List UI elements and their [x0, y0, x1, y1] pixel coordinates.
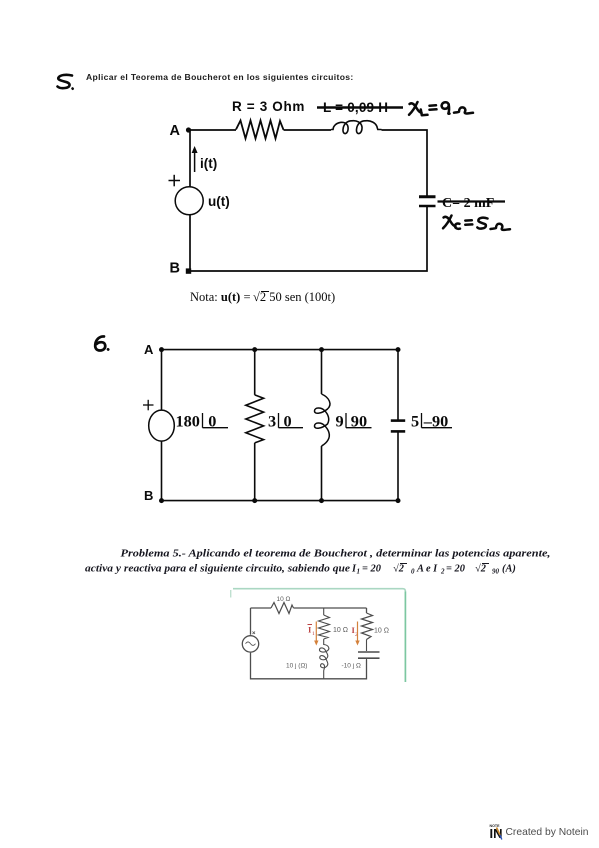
wire source up to node A [189, 130, 191, 187]
strikethrough over C label [438, 200, 506, 202]
svg-text:B: B [170, 261, 180, 277]
top wire (circuit 6) [162, 349, 399, 351]
svg-text:A: A [144, 342, 154, 357]
scanned circuit: middle branch wire [323, 608, 325, 679]
handwritten problem number 5 [58, 75, 73, 89]
svg-text:Problema 5.- Aplicando el teor: Problema 5.- Aplicando el teorema de Bou… [121, 549, 551, 560]
resistor R (circuit 5) [236, 121, 284, 139]
svg-text:A: A [170, 123, 181, 139]
svg-text:1: 1 [312, 631, 315, 637]
green image border left stub [230, 590, 232, 598]
scanned circuit: I1 bar and sub [308, 624, 313, 626]
problema 5 line 2 formulas [351, 563, 516, 576]
capacitor C (circuit 5) [419, 197, 436, 206]
wire inductor to right corner [382, 130, 428, 196]
current arrow i(t) [192, 146, 198, 172]
inductor branch wires (circuit 6) [321, 350, 323, 501]
capacitor branch wires (circuit 6) [397, 350, 399, 501]
svg-text:90: 90 [492, 568, 500, 576]
wire resistor to inductor [284, 129, 332, 131]
svg-text:9: 9 [336, 412, 344, 431]
scanned circuit: middle inductor coil [319, 645, 328, 671]
green image border top [233, 589, 405, 592]
label 5 angle -90 [411, 412, 448, 431]
node A label (circuit 5) [170, 123, 181, 139]
overline of radical [261, 291, 269, 293]
svg-text:√2 50 sen (100t): √2 50 sen (100t) [253, 290, 335, 304]
scanned circuit: source circle [242, 636, 258, 652]
svg-text:= 20: = 20 [362, 564, 382, 575]
svg-text:3: 3 [268, 412, 276, 431]
voltage source ellipse (circuit 6) [149, 410, 175, 441]
svg-text:180: 180 [176, 412, 200, 431]
node A junction dot [186, 127, 191, 132]
scanned circuit: top resistor 10 ohm [271, 603, 294, 614]
svg-text:R = 3 Ohm: R = 3 Ohm [232, 99, 305, 114]
svg-text:10 j (Ω): 10 j (Ω) [286, 663, 307, 670]
green image border right [404, 592, 406, 683]
scanned circuit: middle resistor [319, 615, 330, 639]
svg-text:B: B [144, 488, 153, 503]
junction dots bottom [159, 498, 401, 503]
junction dots top [159, 347, 401, 352]
plus sign (circuit 6) [143, 400, 154, 411]
angle symbol for 3 [279, 413, 304, 428]
scanned circuit: arrow I1 orange [314, 622, 318, 646]
label 9 angle 90 [336, 412, 368, 431]
scanned circuit: source sine mark [246, 642, 256, 646]
strikethrough over L label [317, 106, 403, 108]
nota line: u(t) = sqrt2 50 sen (100t) [190, 290, 335, 304]
source branch wires (circuit 6) [161, 350, 163, 501]
svg-text:(A): (A) [502, 564, 516, 575]
svg-text:u(t): u(t) [208, 194, 230, 209]
svg-text:10 Ω: 10 Ω [333, 627, 348, 634]
svg-text:10 Ω: 10 Ω [374, 628, 389, 635]
svg-text:2: 2 [440, 568, 445, 576]
svg-text:i(t): i(t) [200, 156, 217, 171]
handwritten problem number 6 [95, 336, 108, 350]
svg-text:Nota: u(t) =: Nota: u(t) = [190, 290, 251, 304]
bottom wire (circuit 6) [162, 500, 399, 502]
scanned circuit: right resistor [362, 613, 373, 640]
svg-text:C= 2 mF: C= 2 mF [442, 196, 494, 211]
header instruction text [86, 72, 354, 82]
angle symbol for 9 [346, 413, 372, 428]
svg-text:Created by Notein: Created by Notein [506, 827, 589, 838]
scanned circuit: source plus dot [253, 632, 256, 635]
label 180 angle 0 [176, 412, 217, 431]
svg-text:10 Ω: 10 Ω [277, 596, 291, 603]
handwritten X_L = 9 ohm [409, 102, 473, 115]
wire capacitor to bottom right corner [190, 207, 427, 272]
svg-text:= 20: = 20 [446, 564, 466, 575]
angle symbol for 180 [203, 413, 229, 428]
voltage source u(t) circle [175, 187, 203, 215]
capacitor plates (circuit 6) [391, 421, 405, 432]
scanned circuit: outer loop wires [251, 608, 367, 679]
radical overlines in line 2 [400, 563, 489, 565]
svg-text:5: 5 [411, 412, 419, 431]
node B junction dot [186, 268, 191, 273]
svg-text:√2: √2 [475, 563, 486, 575]
resistor branch wires (circuit 6) [254, 350, 256, 501]
scanned circuit: right branch wire [366, 640, 368, 661]
label 3 angle 0 [268, 412, 292, 431]
notein logo pen stroke [497, 828, 501, 836]
handwritten X_c = 5 ohm [443, 216, 510, 230]
svg-text:A e I: A e I [416, 564, 438, 575]
svg-text:√2: √2 [393, 563, 404, 575]
resistor (circuit 6) [246, 395, 264, 443]
svg-text:-10 j Ω: -10 j Ω [342, 663, 361, 670]
scanned circuit: capacitor right [358, 652, 380, 658]
inductor L (circuit 5) [331, 121, 382, 134]
angle symbol for 5 [422, 413, 453, 428]
svg-text:0: 0 [411, 568, 415, 576]
svg-text:activa y reactiva para el sigu: activa y reactiva para el siguiente circ… [85, 564, 350, 575]
inductor coil (circuit 6) [315, 394, 330, 446]
plus sign of source [169, 175, 181, 187]
scanned circuit: arrow I2 orange [355, 622, 359, 646]
svg-text:1: 1 [357, 568, 361, 576]
wire A to resistor [190, 129, 236, 131]
wire B up to source [189, 215, 191, 271]
